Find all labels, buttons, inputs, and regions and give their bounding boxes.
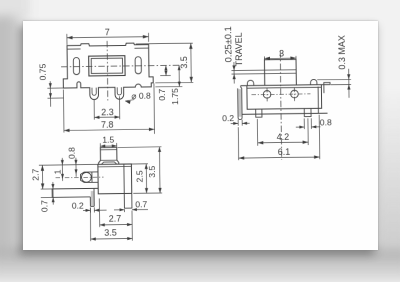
dim 3 arrow left: [264, 57, 270, 60]
dim 0.3 arrow bottom: [347, 84, 350, 89]
svg-text:7: 7: [105, 27, 110, 37]
plan view cover inner edge left: [67, 48, 80, 50]
plan view peg 1 inner hole: [92, 88, 96, 96]
dim 2.3 extension left: [93, 99, 95, 119]
dim 6.1 line: [239, 157, 320, 158]
plan view vertical centerline: [106, 41, 109, 100]
side view button flange line: [101, 159, 117, 161]
dim 1.5 extension right: [116, 143, 118, 147]
dim 0.2 extension right: [241, 120, 243, 126]
dim 7.8 extension left: [62, 89, 65, 132]
dim 0.2 arrows: [231, 122, 238, 124]
dim 2.5 arrow bottom: [145, 188, 148, 193]
dim 6.1 extension right: [318, 115, 321, 159]
side view body top extension right: [120, 163, 147, 165]
front view button travel line 1: [265, 69, 297, 71]
side view body top extension left: [39, 163, 98, 166]
front view bottom plate line: [242, 113, 327, 114]
side view terminal dome: [81, 172, 91, 182]
dim 1 arrow top: [61, 160, 64, 165]
front view vertical centerline: [280, 51, 281, 159]
svg-text:⌀ 0.8: ⌀ 0.8: [131, 91, 151, 101]
front view right terminal face line: [317, 87, 319, 109]
svg-text:3.5: 3.5: [147, 165, 157, 177]
dim 3.5 extension bottom: [155, 81, 193, 83]
side view actuator collar: [101, 162, 116, 165]
dim 0.2s extension left: [89, 207, 91, 212]
dim 4.2 extension left: [256, 119, 258, 146]
side view foot bar: [52, 188, 98, 197]
front view rivet right circle: [291, 90, 299, 98]
dim 3 extension right: [295, 56, 297, 59]
front view rivet horizontal centerline: [251, 93, 310, 96]
dim 7 extension left: [66, 34, 68, 45]
dim 0.8s line: [75, 158, 77, 177]
side view front leg fill: [91, 191, 94, 206]
front view left terminal: [238, 86, 242, 120]
dim 7 extension right: [147, 33, 149, 42]
plan view cover inner edge right: [134, 47, 148, 49]
dim 6.1 extension left: [237, 127, 239, 160]
svg-text:3: 3: [279, 48, 284, 58]
dim 7 arrow right: [143, 35, 149, 38]
dim 4.2 extension right: [307, 118, 309, 145]
dim 7.8 arrow left: [64, 129, 70, 132]
dim 3.5s line: [158, 147, 161, 193]
svg-text:0.3 MAX: 0.3 MAX: [337, 35, 347, 70]
dim 6.1 arrow left: [239, 156, 245, 159]
dim 2.7L line: [41, 165, 43, 189]
dim 0.75 arrow bottom: [49, 93, 52, 98]
phi 0.8 leader arrow: [125, 101, 130, 104]
dim 3.5s arrow bottom: [158, 188, 161, 193]
dim 1 line: [61, 158, 63, 181]
dim 3.5B line: [91, 237, 133, 240]
dim 1.75 arrow top: [178, 65, 181, 70]
side view body inner vertical line: [123, 164, 125, 193]
svg-text:1: 1: [53, 169, 63, 174]
dim 7 arrow left: [67, 36, 73, 39]
dim 0.7 arrow top: [164, 65, 167, 70]
dim 0.7L line: [52, 182, 54, 205]
svg-text:1.5: 1.5: [102, 135, 114, 145]
front view right cover hook: [324, 82, 330, 93]
dim 7.8 extension right: [153, 83, 156, 133]
dim 3.5 line: [190, 43, 193, 82]
dim 0.7 line: [165, 65, 167, 75]
travel arrow top: [232, 65, 235, 70]
dim 0.7 extension: [160, 75, 170, 77]
svg-text:2.7: 2.7: [31, 168, 41, 180]
dim 1.5 extension left: [99, 143, 101, 147]
plan view left slot: [73, 57, 79, 74]
travel extension bottom: [232, 73, 265, 75]
dim 3 line: [264, 57, 296, 59]
dim 0.75 extension bottom: [48, 97, 64, 99]
dim 1 arrow bottom: [61, 174, 64, 179]
plan view right slot: [135, 57, 141, 74]
dim 2.5 line: [145, 164, 147, 193]
dim 0.2s arrows: [83, 209, 90, 211]
front view left leg: [256, 109, 262, 117]
plan view horizontal centerline: [61, 65, 179, 67]
dim 2.7B arrow left: [100, 223, 105, 226]
front view bottom right terminal step: [317, 108, 319, 113]
dim 0.7R arrows: [114, 209, 124, 211]
dim 3.5 arrow bottom: [190, 77, 193, 83]
dim 0.3 extension bottom: [331, 83, 351, 85]
dim 3.5s arrow top: [158, 147, 161, 152]
side view button inner top line: [100, 149, 116, 151]
dim 7.8 line: [64, 129, 155, 130]
dim 0.8s arrow top: [74, 160, 77, 165]
svg-text:0.7: 0.7: [157, 89, 167, 101]
travel extension top: [231, 69, 264, 71]
side view button top extension right: [118, 146, 162, 149]
dim 3.5 arrow top: [189, 43, 192, 49]
dim 0.8s arrow bottom: [75, 169, 78, 174]
front view button travel line 2: [265, 72, 297, 74]
dim 2.3 arrow right: [115, 115, 120, 118]
dim 0.2 extension left: [237, 120, 239, 126]
dim 4.2 arrow right: [303, 140, 309, 143]
side view body bottom extension right: [133, 192, 162, 194]
dim 1.75 extension bottom: [155, 86, 182, 88]
svg-text:TRAVEL: TRAVEL: [234, 32, 244, 66]
front view button: [264, 59, 296, 85]
side view front leg: [90, 188, 94, 206]
front view right leg: [304, 108, 311, 116]
dim 0.8 extension right: [310, 118, 312, 129]
dim 2.7B extension left: [98, 198, 100, 227]
phi 0.8 leader line: [125, 100, 134, 102]
svg-text:2.5: 2.5: [135, 170, 145, 182]
dim 3.5B arrow left: [91, 237, 96, 240]
dim 0.2s extension right: [93, 207, 95, 212]
dim 0.7L arrow top: [51, 184, 54, 189]
dim 0.8 arrows: [296, 126, 304, 128]
side view foot bar top extension: [41, 188, 52, 190]
dim 2.7L arrow bottom: [41, 183, 44, 189]
front view rivet left vertical centerline: [266, 88, 268, 102]
dim 0.3 line: [348, 69, 350, 98]
dim 2.3 line: [94, 116, 119, 118]
dim 2.7B extension right: [131, 210, 133, 240]
white drawing card: [23, 21, 378, 250]
dim 0.7L arrow bottom: [52, 197, 55, 202]
dim 3.5 extension top: [136, 42, 193, 45]
dim 1.5 line and arrows: [100, 145, 116, 147]
side view foot bar bottom extension: [41, 196, 52, 198]
front view rivet right vertical centerline: [293, 87, 295, 101]
plan view actuator outer rectangle: [89, 56, 125, 76]
dim 2.7B line: [100, 223, 132, 225]
svg-text:0.8: 0.8: [67, 147, 77, 159]
side view rear leg: [124, 193, 132, 208]
side view button: [98, 147, 118, 164]
dim 0.75 arrow top: [49, 83, 52, 88]
dim 3 extension left: [263, 56, 265, 59]
svg-text:0.8: 0.8: [320, 117, 332, 127]
svg-text:4.2: 4.2: [277, 132, 290, 142]
svg-text:2.7: 2.7: [109, 214, 122, 224]
dim 2.7B arrow right: [127, 223, 132, 226]
svg-text:1.75: 1.75: [170, 88, 180, 105]
front view cover top line: [241, 84, 330, 85]
svg-text:0.25±0.1: 0.25±0.1: [223, 26, 233, 62]
card drop shadow: [23, 21, 378, 250]
svg-text:2.3: 2.3: [101, 107, 114, 117]
dim 1.75 line: [178, 65, 180, 86]
dim 7 line: [67, 37, 149, 38]
dim 3.5B arrow right: [127, 237, 132, 240]
front view cover bottom line: [247, 86, 321, 89]
dim 0.75 extension top: [47, 87, 63, 89]
front view left terminal fill: [238, 89, 241, 117]
dim 0.75 line: [49, 81, 51, 106]
svg-text:0.75: 0.75: [37, 63, 47, 80]
side view terminal centerline: [56, 176, 104, 179]
dim 3 arrow right: [290, 56, 296, 59]
dim 7.8 arrow right: [149, 128, 155, 131]
dim 6.1 arrow right: [314, 155, 320, 158]
dim 4.2 line: [258, 141, 308, 144]
dim 0.8 extension left: [303, 118, 305, 129]
svg-text:3.5: 3.5: [179, 56, 189, 68]
dim 0.7 arrow bottom: [164, 71, 167, 76]
svg-text:7.8: 7.8: [101, 119, 114, 129]
side view body: [98, 164, 132, 194]
dim 4.2 arrow left: [258, 141, 264, 144]
dim 0.7R extension left: [123, 209, 125, 212]
svg-text:3.5: 3.5: [104, 228, 117, 238]
dim 2.7L arrow top: [41, 165, 44, 171]
side view terminal fold line: [91, 172, 93, 182]
side view side terminal: [80, 172, 98, 183]
svg-text:6.1: 6.1: [278, 147, 291, 157]
front view rivet left circle: [263, 91, 271, 99]
dim 1.75 arrow bottom: [178, 82, 181, 87]
dim 0.3 arrow top: [347, 74, 350, 79]
travel arrow bottom: [233, 74, 236, 79]
front view body: [247, 85, 322, 110]
dim 2.5 arrow top: [145, 164, 148, 169]
dim 0.3 extension top: [317, 78, 351, 80]
plan view switch body outline: [63, 43, 154, 100]
svg-text:0.7: 0.7: [39, 200, 49, 212]
svg-text:0.7: 0.7: [135, 199, 147, 209]
side view body cover line: [98, 165, 131, 167]
dim 3.5B extension left: [89, 208, 91, 241]
dim 2.3 extension right: [118, 96, 120, 119]
dim 2.3 arrow left: [94, 116, 99, 119]
front view left dome tab: [247, 80, 253, 85]
plan view peg 2 inner hole: [117, 87, 121, 95]
front view right dome tab: [310, 79, 316, 84]
travel dim line: [233, 62, 235, 83]
plan view actuator inner rectangle: [91, 58, 122, 73]
svg-text:0.2: 0.2: [222, 113, 234, 123]
svg-text:0.2: 0.2: [72, 201, 84, 211]
